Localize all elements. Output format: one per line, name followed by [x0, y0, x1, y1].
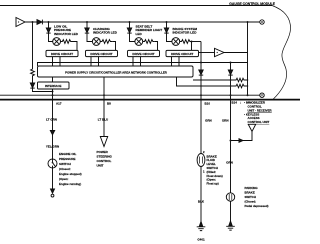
svg-text:SWITCH: SWITCH — [245, 195, 256, 199]
junction R6 wire/D8 branch — [230, 79, 232, 81]
svg-text:INDICATOR LED: INDICATOR LED — [173, 31, 198, 35]
resistor R6 — [193, 78, 248, 82]
wire into drive circuit 3 — [155, 42, 158, 51]
svg-text:BRAKE: BRAKE — [245, 190, 255, 194]
wire parking brake switch to ground — [230, 201, 232, 221]
svg-text:B14: B14 — [232, 101, 238, 105]
svg-text:PARKING: PARKING — [245, 186, 259, 190]
wires drive circuit 2 to power supply box — [91, 57, 99, 66]
svg-text:B10: B10 — [205, 102, 211, 106]
svg-text:STEERING: STEERING — [97, 154, 113, 158]
junction F (top bus / right drop wire) — [247, 21, 249, 23]
drive circuit box 4 — [166, 50, 199, 56]
junction rail/B14 wire — [230, 94, 232, 96]
svg-text:POWER: POWER — [97, 150, 109, 154]
interface box — [38, 82, 70, 89]
junction R4 output node — [191, 41, 193, 43]
svg-text:PRESSURE: PRESSURE — [59, 157, 76, 161]
junction rail/A17 wire — [52, 94, 54, 96]
wire switch to body ground arrow — [52, 168, 54, 189]
bulb L4 — [172, 38, 180, 46]
arrow from keyless unit — [248, 124, 255, 131]
junction D (top bus / LED D4) — [129, 21, 131, 23]
svg-text:(Closed:: (Closed: — [59, 167, 71, 171]
svg-text:LT BLU: LT BLU — [98, 117, 108, 121]
engine oil pressure switch — [48, 159, 57, 168]
bulb L3 — [135, 38, 143, 46]
svg-text:INTERFACE: INTERFACE — [45, 84, 61, 88]
connector arrow on A17 wire — [50, 131, 54, 135]
arrow to power steering control unit — [100, 137, 107, 147]
svg-text:CONTROL: CONTROL — [97, 159, 112, 163]
resistor R2 — [100, 40, 112, 44]
junction R6 wire/D7 branch — [200, 79, 202, 81]
wire into drive circuit 2 — [112, 42, 115, 51]
svg-text:INDICATOR LED: INDICATOR LED — [93, 31, 118, 35]
wire buffer output — [224, 52, 248, 54]
op-amp U2 (seat belt buffer) — [199, 52, 215, 54]
wire switch down to ground — [200, 167, 202, 222]
svg-text:DRIVE CIRCUIT: DRIVE CIRCUIT — [51, 52, 73, 56]
svg-text:GRN: GRN — [205, 118, 212, 122]
junction C (top bus / LED D3) — [86, 21, 88, 23]
svg-text:(Closed:: (Closed: — [245, 199, 257, 203]
svg-text:(Open:: (Open: — [59, 177, 68, 181]
junction rail/B8 wire — [103, 94, 105, 96]
LED D2 (low oil pressure indicator LED) — [48, 22, 50, 28]
svg-text:Pedal depressed): Pedal depressed) — [245, 204, 269, 208]
diode D7 (on B10 branch) — [200, 42, 202, 71]
svg-text:DRIVE CIRCUIT: DRIVE CIRCUIT — [90, 52, 112, 56]
svg-text:POWER SUPPLY CIRCUIT/CONTROLLE: POWER SUPPLY CIRCUIT/CONTROLLER AREA NET… — [65, 70, 168, 74]
wire node to drive circuit 4 input — [191, 42, 193, 51]
svg-text:B8: B8 — [107, 102, 111, 106]
resistor R3 — [143, 40, 155, 44]
ground (parking brake) — [229, 221, 232, 226]
svg-text::: : — [240, 101, 241, 105]
svg-text:1: 1 — [203, 170, 205, 174]
wire upper connector rail — [0, 94, 260, 96]
svg-text:2: 2 — [203, 150, 205, 154]
wires drive circuit 1 to power supply box — [53, 57, 61, 66]
svg-text:SWITCH: SWITCH — [59, 162, 71, 166]
diode D1 on top wire — [37, 20, 42, 25]
svg-text:UNIT: UNIT — [97, 163, 104, 167]
wires drive circuit 3 to power supply box — [133, 57, 141, 66]
junction R7 wire/D7 branch — [200, 85, 202, 87]
resistor R4 — [180, 40, 192, 44]
arrowhead on keyless branch wire — [239, 139, 243, 143]
svg-text:DRIVE CIRCUIT: DRIVE CIRCUIT — [171, 52, 193, 56]
wire B8 down — [103, 100, 105, 137]
parking brake switch — [226, 193, 234, 201]
diode D6 (left chain) — [32, 76, 34, 83]
svg-text:CONTROL UNIT: CONTROL UNIT — [248, 120, 270, 124]
svg-text:Float up): Float up) — [207, 182, 219, 186]
wire keyless arrow to node — [231, 132, 253, 141]
svg-text:Engine running): Engine running) — [59, 182, 81, 186]
svg-text:G401: G401 — [197, 238, 205, 242]
junction H1/diode D8 branch — [230, 62, 232, 64]
svg-text:INDICATOR LED: INDICATOR LED — [54, 32, 79, 36]
wire B10 down — [200, 100, 202, 154]
drive circuit box 2 — [86, 50, 118, 56]
svg-text:ORN: ORN — [222, 118, 229, 122]
svg-text:LED: LED — [136, 32, 143, 36]
svg-text:A17: A17 — [56, 102, 62, 106]
LED D4 (seat belt reminder light LED) — [129, 22, 131, 28]
wires drive circuit 4 to power supply box — [172, 57, 180, 66]
wire power box to interface — [52, 77, 54, 82]
terminal circle top right — [260, 20, 264, 24]
resistor R7 — [177, 77, 249, 88]
resistor R5 (vertical, left chain) — [32, 22, 34, 68]
wire power box to B8 pin — [103, 77, 105, 100]
junction R7 wire/D8 branch — [230, 85, 232, 87]
wire interface down to connector — [52, 89, 54, 100]
svg-text:Engine stopped): Engine stopped) — [59, 172, 82, 176]
bulb L1 — [53, 38, 61, 46]
junction rail/right drop wire — [247, 94, 249, 96]
junction A (top bus / left chain) — [32, 21, 34, 23]
module right torn-edge curve — [272, 6, 291, 100]
drive circuit box 1 — [46, 50, 78, 56]
drive circuit box 3 — [128, 50, 160, 56]
LED D5 (brake system indicator LED) — [166, 22, 168, 28]
svg-text:YEL/GRN: YEL/GRN — [46, 144, 59, 148]
svg-text:LT GRN: LT GRN — [46, 117, 57, 121]
power supply circuit / CAN controller box — [38, 66, 194, 77]
junction E (top bus / LED D5) — [166, 21, 168, 23]
wire into drive circuit 1 — [73, 42, 78, 51]
junction B (top bus / LED D2) — [48, 21, 50, 23]
wire right vertical to terminal — [247, 22, 249, 95]
svg-text:BLK: BLK — [198, 199, 205, 203]
module top border line — [0, 5, 272, 7]
wire B14 down — [230, 100, 232, 193]
junction rail/B10 wire — [200, 94, 202, 96]
terminal circle right middle — [260, 93, 264, 97]
svg-text:DRIVE CIRCUIT: DRIVE CIRCUIT — [132, 52, 154, 56]
wire resistor R4 to node and down — [192, 41, 201, 43]
LED D3 (charging indicator LED) — [86, 22, 88, 28]
op-amp U1 (top-left buffer) — [16, 18, 25, 27]
svg-text:ORN: ORN — [226, 161, 233, 165]
resistor R1 — [61, 40, 73, 44]
wire diode to interface node — [33, 88, 53, 91]
wire internal bus H1 — [38, 63, 248, 67]
junction H1/diode D7 branch — [200, 62, 202, 64]
junction B14 wire/keyless branch — [230, 140, 232, 142]
wire A17 down — [52, 100, 54, 159]
bulb L2 — [92, 38, 100, 46]
brake fluid level switch (oval) — [197, 154, 205, 167]
svg-text:ENGINE OIL: ENGINE OIL — [59, 152, 77, 156]
wire lower connector rail — [0, 99, 300, 101]
junction left chain/A17 wire — [52, 91, 54, 93]
diode D8 (on B14 branch) — [230, 63, 232, 71]
wire top bus — [25, 21, 260, 23]
ground G401 — [199, 222, 202, 227]
